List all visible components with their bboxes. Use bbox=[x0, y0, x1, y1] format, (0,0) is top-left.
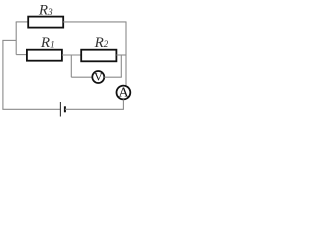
battery long plate bbox=[59, 102, 61, 117]
wire: voltmeter right stub down from R2 output bbox=[120, 55, 122, 77]
wire: voltmeter left stub down from R1-R2 node bbox=[70, 55, 72, 77]
wire: R3 left lead bbox=[16, 21, 28, 23]
background bbox=[0, 0, 138, 124]
wire: R1 to R2 bbox=[62, 54, 81, 56]
wire: R2 right lead to right rail bbox=[116, 54, 126, 56]
resistor R2 bbox=[81, 50, 116, 62]
wire: inner left vertical (joins R3 and R1 branches) bbox=[15, 22, 17, 55]
wire: R1 left lead bbox=[16, 54, 27, 56]
svg-text:V: V bbox=[94, 69, 103, 83]
resistor R1 bbox=[27, 50, 62, 61]
wire: left outer rail bbox=[2, 40, 4, 109]
wire: ammeter bottom lead bbox=[122, 99, 124, 109]
wire: bottom left to battery bbox=[2, 108, 60, 110]
wire: R3 right lead to right rail bbox=[63, 21, 126, 23]
wire: battery to ammeter bottom bbox=[65, 108, 124, 110]
battery short plate bbox=[64, 106, 66, 112]
wire: tee from left rail to inner vertical bbox=[2, 39, 16, 41]
wire: right rail down to ammeter bbox=[125, 22, 127, 86]
svg-text:A: A bbox=[118, 86, 129, 101]
ammeter A bbox=[117, 86, 131, 100]
wire: voltmeter branch left horizontal bbox=[71, 76, 92, 78]
resistor R3 bbox=[28, 17, 63, 28]
wire: voltmeter branch right horizontal bbox=[104, 76, 122, 78]
voltmeter V bbox=[92, 71, 104, 83]
